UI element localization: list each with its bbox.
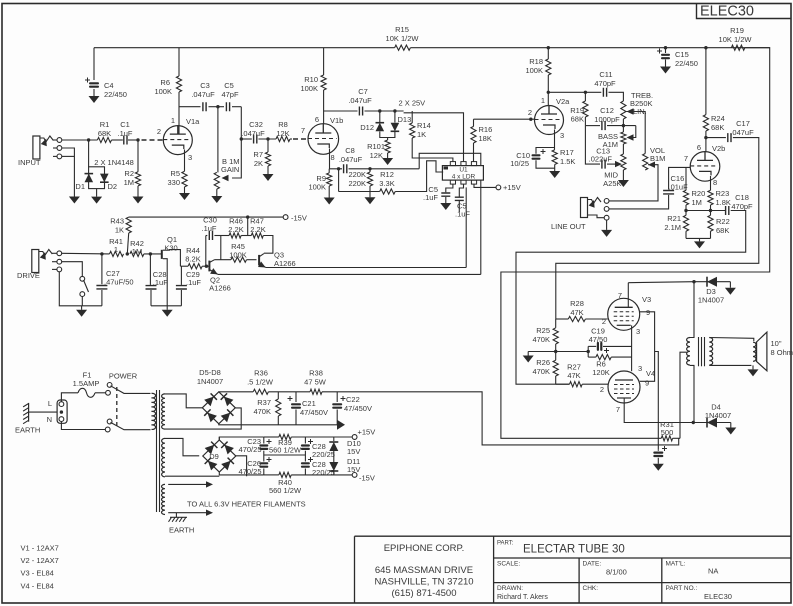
svg-text:R21: R21 — [667, 214, 681, 223]
ground — [729, 282, 731, 288]
resistor R20 — [683, 190, 688, 205]
resistor R22 — [708, 215, 713, 231]
ground — [369, 196, 371, 198]
resistor R41 — [110, 251, 124, 256]
resistor R14 — [411, 111, 413, 123]
svg-text:1M: 1M — [124, 178, 134, 187]
svg-text:100K: 100K — [154, 87, 172, 96]
svg-text:V3: V3 — [642, 295, 651, 304]
svg-text:C22: C22 — [346, 395, 360, 404]
svg-text:18K: 18K — [479, 134, 492, 143]
svg-text:R20: R20 — [692, 189, 706, 198]
wire drive caps ground rail — [151, 305, 181, 307]
svg-text:D12: D12 — [360, 123, 374, 132]
resistor R43 — [126, 217, 131, 233]
svg-text:-15V: -15V — [359, 474, 375, 483]
wire transformer B+ tap — [680, 352, 687, 438]
wire V3 screen — [640, 312, 655, 352]
svg-text:1N4007: 1N4007 — [705, 411, 731, 420]
capacitor C5 .1uF b — [459, 184, 463, 196]
svg-text:2: 2 — [157, 127, 161, 136]
resistor R45 — [220, 236, 222, 260]
pot VOL B1M — [643, 154, 648, 171]
speaker 10in 8 Ohm — [709, 338, 754, 342]
svg-text:1: 1 — [114, 245, 118, 254]
resistor R12 — [338, 169, 340, 192]
svg-text:1N4007: 1N4007 — [197, 377, 223, 386]
resistor R2 — [137, 140, 139, 172]
svg-text:R36: R36 — [254, 369, 268, 378]
jack LINE OUT — [581, 198, 588, 218]
resistor R8 — [276, 136, 290, 141]
capacitor C19 — [588, 345, 596, 347]
tube V1b — [308, 124, 339, 155]
svg-text:.047uF: .047uF — [348, 96, 372, 105]
svg-text:.047uF: .047uF — [241, 129, 265, 138]
resistor R37 — [277, 392, 279, 399]
svg-text:3: 3 — [636, 327, 640, 336]
wire V2b grid node — [685, 167, 687, 190]
svg-text:.022uF: .022uF — [589, 155, 613, 164]
capacitor C26 — [263, 455, 265, 462]
capacitor C7 — [324, 110, 358, 112]
capacitor C17 — [706, 137, 726, 139]
svg-text:6: 6 — [315, 115, 319, 124]
bridge D9 — [165, 438, 199, 455]
svg-text:EARTH: EARTH — [169, 526, 194, 535]
svg-text:8: 8 — [331, 153, 335, 162]
wire input to R1 — [62, 139, 98, 141]
wire treb-bass link — [622, 119, 624, 132]
wire plate node V1a — [179, 106, 201, 108]
svg-text:22/450: 22/450 — [104, 90, 127, 99]
zener D10 — [333, 437, 335, 441]
svg-text:C11: C11 — [599, 70, 612, 79]
svg-text:U1: U1 — [459, 167, 468, 174]
svg-text:7: 7 — [618, 291, 622, 300]
resistor R19 tone — [584, 92, 586, 101]
svg-text:V1b: V1b — [330, 116, 343, 125]
svg-text:6: 6 — [697, 143, 701, 152]
svg-text:C17: C17 — [736, 119, 750, 128]
wire B+ top bus — [94, 47, 395, 49]
resistor R6 — [178, 48, 180, 76]
capacitor C13 — [585, 126, 600, 165]
svg-text:3: 3 — [560, 131, 564, 140]
svg-text:.1uF: .1uF — [455, 210, 470, 219]
wire R21 R22 ground rail — [686, 237, 711, 239]
tube V4 — [608, 371, 640, 403]
svg-text:1: 1 — [541, 96, 545, 105]
wire drive sleeve ground rail — [59, 272, 102, 306]
svg-text:.1uF: .1uF — [153, 278, 168, 287]
svg-text:V4: V4 — [646, 369, 655, 378]
svg-text:2.2K: 2.2K — [228, 225, 243, 234]
svg-text:2: 2 — [528, 108, 532, 117]
wire HV minus rail — [219, 424, 337, 425]
svg-text:R24: R24 — [711, 114, 725, 123]
svg-text:EARTH: EARTH — [15, 426, 40, 435]
svg-text:2.2K: 2.2K — [250, 225, 265, 234]
wire C18 to R27 run — [516, 211, 746, 385]
wire R19 feedback run — [501, 48, 770, 439]
svg-text:D2: D2 — [108, 182, 118, 191]
tube V2a — [535, 106, 564, 135]
svg-text:7: 7 — [684, 154, 688, 163]
resistor R28 — [568, 316, 585, 321]
svg-text:R10: R10 — [304, 75, 318, 84]
svg-text:470pF: 470pF — [594, 79, 616, 88]
svg-text:8 Ohm: 8 Ohm — [771, 348, 793, 357]
svg-text:C15: C15 — [675, 50, 689, 59]
svg-text:V2 - 12AX7: V2 - 12AX7 — [21, 556, 59, 565]
svg-text:+15V: +15V — [503, 183, 521, 192]
wire vol wiper to line out — [609, 165, 658, 201]
svg-text:Richard T. Akers: Richard T. Akers — [497, 594, 548, 601]
wire V3 cathode — [631, 325, 633, 371]
svg-text:645 MASSMAN DRIVE: 645 MASSMAN DRIVE — [375, 565, 473, 576]
svg-text:C7: C7 — [358, 87, 368, 96]
diode D12 — [376, 122, 385, 124]
svg-text:8/1/00: 8/1/00 — [606, 568, 627, 577]
diode D4 — [706, 418, 708, 428]
wire R46 R47 junction to -15V rail — [241, 235, 251, 237]
capacitor C30 — [209, 231, 212, 240]
wire R14 to U1 pin — [412, 138, 453, 162]
svg-text:68K: 68K — [716, 226, 729, 235]
diode clamp box 2 X 1N4148 — [88, 140, 90, 167]
svg-text:470K: 470K — [532, 367, 550, 376]
resistor R16 — [473, 119, 475, 126]
svg-text:R16: R16 — [479, 125, 493, 134]
capacitor C21 — [295, 392, 297, 402]
wire +15V feed — [474, 184, 496, 187]
wire C5 to gain wiper — [232, 107, 241, 178]
svg-text:ELECTAR TUBE 30: ELECTAR TUBE 30 — [523, 544, 625, 556]
ground — [730, 423, 732, 428]
wire V2b cathode — [710, 176, 712, 190]
svg-text:R23: R23 — [716, 189, 730, 198]
svg-text:NASHVILLE, TN 37210: NASHVILLE, TN 37210 — [374, 577, 473, 588]
zener network D12 D13 — [379, 111, 381, 123]
ground R25 R26 node — [528, 351, 556, 353]
svg-text:1: 1 — [171, 116, 175, 125]
resistor R9 — [327, 173, 332, 186]
ground — [166, 306, 168, 310]
svg-text:V1 - 12AX7: V1 - 12AX7 — [21, 544, 59, 553]
svg-text:ELEC30: ELEC30 — [704, 592, 732, 601]
svg-text:R25: R25 — [536, 326, 550, 335]
svg-text:12K: 12K — [276, 129, 289, 138]
wire Q2 emitter run to U1 — [218, 273, 481, 275]
svg-text:7: 7 — [616, 405, 620, 414]
wire V3 plate to transformer — [628, 282, 694, 283]
svg-text:4 x LDR: 4 x LDR — [452, 174, 476, 181]
resistor R38 — [310, 389, 322, 394]
resistor R101 — [387, 138, 389, 141]
capacitor C22 — [336, 392, 338, 402]
ground — [81, 306, 83, 310]
svg-text:100K: 100K — [308, 183, 326, 192]
svg-text:220K: 220K — [348, 179, 366, 188]
svg-text:.5 1/2W: .5 1/2W — [247, 378, 274, 387]
diode D2 — [100, 181, 109, 183]
wire jack contacts to ground — [62, 148, 75, 197]
ground — [699, 238, 701, 241]
svg-text:68K: 68K — [571, 115, 584, 124]
svg-text:560 1/2W: 560 1/2W — [269, 486, 302, 495]
resistor R23 — [708, 190, 713, 205]
ground — [216, 195, 218, 197]
svg-text:47K: 47K — [567, 371, 580, 380]
svg-text:B1M: B1M — [650, 154, 665, 163]
tube V1a — [163, 126, 192, 155]
svg-text:C1: C1 — [120, 120, 130, 129]
svg-text:9: 9 — [645, 379, 649, 388]
svg-text:330: 330 — [167, 178, 180, 187]
svg-text:2 X 1N4148: 2 X 1N4148 — [94, 158, 134, 167]
svg-text:PART:: PART: — [497, 541, 514, 547]
svg-text:R2: R2 — [124, 169, 134, 178]
ground — [665, 60, 667, 67]
resistor R42 — [130, 251, 144, 256]
svg-text:.047uF: .047uF — [339, 155, 363, 164]
svg-text:470pF: 470pF — [731, 202, 753, 211]
svg-text:1K: 1K — [417, 130, 426, 139]
wire LV plus rail — [219, 437, 263, 440]
svg-text:1.8K: 1.8K — [716, 198, 731, 207]
capacitor C5 47pF — [226, 102, 229, 111]
resistor R36 — [253, 389, 268, 394]
resistor R25 — [555, 319, 557, 328]
svg-text:R101: R101 — [367, 142, 385, 151]
zener D11 — [329, 470, 338, 472]
svg-text:1000pF: 1000pF — [594, 115, 620, 124]
svg-text:C32: C32 — [249, 120, 263, 129]
wire -15V rail drive — [129, 216, 283, 218]
mains terminal block — [57, 400, 67, 423]
resistor R7 — [267, 139, 269, 152]
svg-text:POWER: POWER — [109, 372, 138, 381]
svg-text:.1uF: .1uF — [117, 129, 132, 138]
resistor R44 — [180, 265, 188, 267]
svg-text:LIN.: LIN. — [633, 107, 647, 116]
ground — [96, 189, 98, 197]
svg-text:220/25: 220/25 — [312, 450, 335, 459]
svg-text:V2a: V2a — [556, 97, 570, 106]
transistor Q3 A1266 — [258, 255, 260, 266]
capacitor C28 plus — [304, 437, 306, 444]
svg-text:R26: R26 — [536, 358, 550, 367]
resistor R1 — [97, 137, 111, 142]
svg-text:560 1/2W: 560 1/2W — [269, 446, 302, 455]
svg-text:220K: 220K — [348, 170, 366, 179]
wire V3 plate — [627, 283, 629, 308]
svg-text:PART NO.:: PART NO.: — [666, 585, 698, 592]
terminal +15V — [352, 435, 357, 440]
power transformer T1 — [152, 393, 156, 429]
svg-text:220/25: 220/25 — [312, 468, 335, 477]
resistor R6 120K — [587, 346, 589, 357]
svg-text:2: 2 — [602, 317, 606, 326]
svg-text:470/25: 470/25 — [239, 445, 262, 454]
transistor Q2 A1266 — [208, 261, 210, 272]
capacitor C29 — [176, 286, 187, 289]
title block — [355, 536, 792, 603]
jack DRIVE — [32, 250, 39, 273]
capacitor C28 drive — [149, 254, 151, 285]
resistor R24 — [705, 48, 707, 115]
svg-text:C12: C12 — [600, 106, 614, 115]
svg-text:100K: 100K — [525, 66, 543, 75]
svg-text:470K: 470K — [253, 407, 271, 416]
svg-text:-15V: -15V — [291, 214, 307, 223]
svg-text:68K: 68K — [711, 123, 724, 132]
svg-text:12K: 12K — [370, 151, 383, 160]
svg-text:2: 2 — [600, 385, 604, 394]
svg-text:LINE OUT: LINE OUT — [551, 222, 586, 231]
svg-text:R22: R22 — [716, 217, 730, 226]
tube V3 — [608, 298, 640, 330]
wire drive jack top — [62, 252, 110, 255]
svg-text:47 5W: 47 5W — [304, 378, 327, 387]
svg-text:+15V: +15V — [358, 428, 376, 437]
wire D12 node to U1 middle pin — [404, 113, 464, 162]
pot TREB B250K — [621, 101, 626, 119]
svg-text:10/25: 10/25 — [510, 159, 529, 168]
earth mains — [28, 403, 30, 422]
transformer HV secondary — [162, 394, 165, 429]
wire R12 to U1 left pin — [395, 161, 443, 192]
svg-text:100K: 100K — [229, 250, 247, 259]
wire V2a cathode — [554, 130, 556, 150]
transformer heater winding — [162, 484, 165, 514]
jack INPUT — [33, 136, 40, 159]
resistor R5 cathode — [184, 150, 186, 172]
resistor R21 — [683, 215, 688, 231]
svg-text:8: 8 — [713, 178, 717, 187]
svg-text:R8: R8 — [278, 120, 288, 129]
ground — [622, 179, 624, 181]
resistor R10 — [323, 48, 325, 75]
svg-text:A1266: A1266 — [209, 284, 231, 293]
svg-text:47K: 47K — [570, 308, 583, 317]
svg-text:R38: R38 — [309, 369, 323, 378]
svg-text:V3 - EL84: V3 - EL84 — [21, 569, 54, 578]
terminal -15V — [352, 473, 357, 478]
wire grid dashes V1b — [293, 138, 309, 140]
svg-text:1K: 1K — [115, 226, 124, 235]
wire R42 to Q1 gate — [144, 253, 161, 255]
svg-text:1M: 1M — [692, 198, 702, 207]
svg-text:R7: R7 — [253, 150, 263, 159]
svg-text:9: 9 — [646, 308, 650, 317]
capacitor C10 — [536, 148, 555, 154]
svg-text:3: 3 — [638, 364, 642, 373]
svg-text:V1a: V1a — [186, 117, 200, 126]
svg-text:D5-D8: D5-D8 — [199, 368, 221, 377]
diode D1 — [85, 173, 94, 175]
svg-text:1N4007: 1N4007 — [698, 296, 724, 305]
tube V2b — [690, 152, 720, 182]
ground — [657, 458, 659, 464]
svg-text:D1: D1 — [75, 182, 85, 191]
ground — [554, 170, 556, 172]
svg-text:R17: R17 — [560, 148, 574, 157]
wire Q3 emitter run to U1 — [266, 267, 467, 269]
svg-text:MAT'L:: MAT'L: — [666, 561, 686, 568]
svg-text:V4 - EL84: V4 - EL84 — [21, 582, 54, 591]
capacitor C3 — [203, 102, 206, 111]
svg-text:K30: K30 — [164, 244, 177, 253]
svg-text:100K: 100K — [300, 84, 318, 93]
svg-text:R19: R19 — [730, 26, 744, 35]
svg-text:R1: R1 — [100, 120, 110, 129]
ground — [387, 157, 389, 159]
svg-text:47pF: 47pF — [221, 90, 239, 99]
svg-text:15V: 15V — [347, 447, 360, 456]
wire V1b cathode to C8 — [330, 149, 343, 169]
capacitor C8 — [344, 164, 347, 173]
svg-text:SCALE:: SCALE: — [497, 561, 520, 568]
svg-text:.047uF: .047uF — [730, 128, 754, 137]
svg-text:D13: D13 — [398, 115, 412, 124]
svg-text:R18: R18 — [529, 57, 543, 66]
wire C8 node to U1 right pin — [419, 153, 481, 169]
svg-text:R14: R14 — [417, 121, 431, 130]
svg-text:A1266: A1266 — [274, 259, 296, 268]
capacitor C4 — [93, 48, 95, 80]
svg-text:47/450V: 47/450V — [344, 404, 372, 413]
wire mid rail — [264, 454, 306, 456]
resistor R39 — [264, 436, 279, 438]
wire V4 plate to D4 node — [624, 398, 704, 423]
resistor R31 — [661, 436, 672, 441]
wire B+ from supply — [393, 392, 679, 445]
resistor R27 — [570, 382, 583, 387]
capacitor C16 — [669, 167, 691, 189]
capacitor C23 — [263, 437, 265, 444]
wire D9 AC2 — [235, 456, 247, 476]
svg-text:C18: C18 — [735, 193, 749, 202]
svg-text:.1uF: .1uF — [186, 278, 201, 287]
capacitor C15 — [665, 48, 667, 53]
switch drive — [62, 262, 83, 277]
diode D3 — [694, 281, 730, 283]
svg-text:7: 7 — [301, 126, 305, 135]
ground — [137, 196, 139, 198]
svg-text:120K: 120K — [592, 368, 610, 377]
wire bridge plus to R36 — [219, 391, 253, 393]
wire N to switch — [61, 421, 105, 429]
svg-text:R15: R15 — [395, 25, 409, 34]
svg-text:8.2K: 8.2K — [185, 255, 200, 264]
svg-text:R6: R6 — [160, 78, 170, 87]
wire to R38 — [268, 391, 310, 393]
capacitor C32 — [241, 138, 252, 140]
resistor R15 — [395, 45, 411, 50]
wire V4 screen — [640, 352, 655, 382]
svg-text:R37: R37 — [257, 398, 271, 407]
ground speaker — [752, 365, 754, 369]
capacitor C18 — [726, 206, 729, 215]
wire C8 node — [349, 168, 420, 170]
svg-text:2K: 2K — [254, 159, 263, 168]
ground — [93, 89, 95, 96]
diode D13 — [391, 130, 400, 132]
wire transformer primary bottom — [690, 365, 694, 422]
svg-text:.1uF: .1uF — [201, 224, 216, 233]
